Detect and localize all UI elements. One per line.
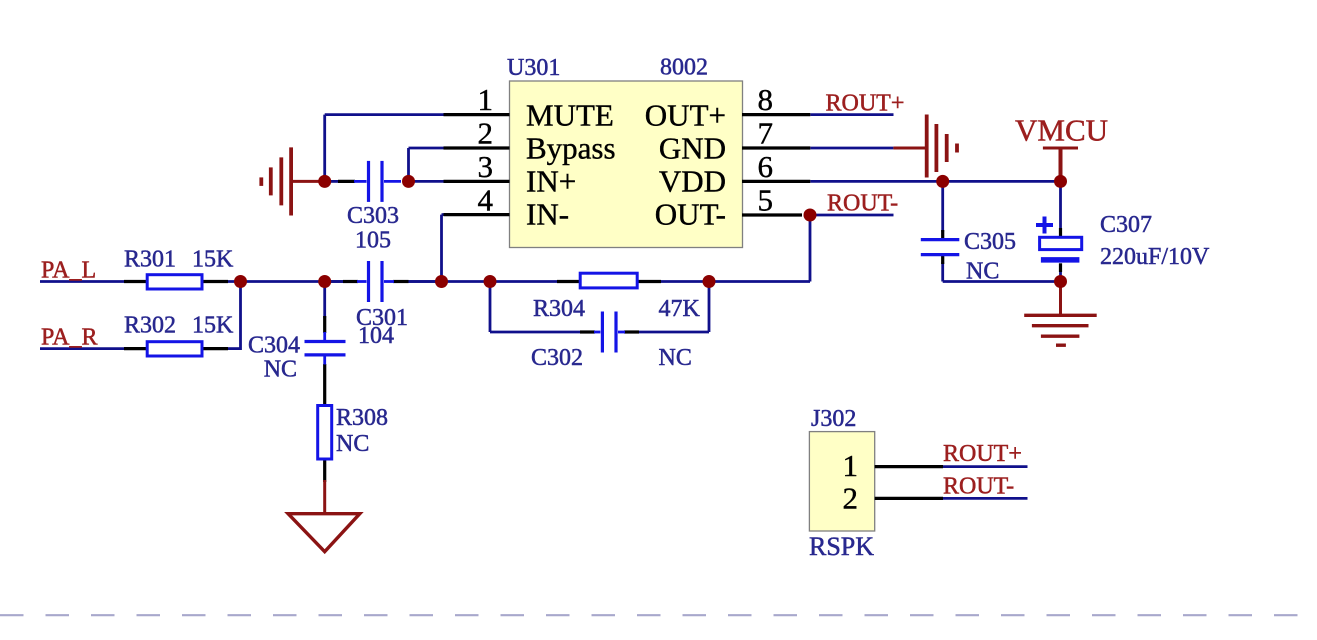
svg-text:OUT+: OUT+ bbox=[645, 98, 726, 133]
svg-text:IN-: IN- bbox=[526, 197, 569, 232]
svg-text:R308: R308 bbox=[336, 405, 388, 431]
svg-text:R301: R301 bbox=[124, 247, 176, 273]
svg-text:47K: 47K bbox=[659, 296, 701, 322]
svg-text:R302: R302 bbox=[124, 313, 176, 339]
svg-text:220uF/10V: 220uF/10V bbox=[1100, 244, 1210, 270]
svg-text:8: 8 bbox=[758, 82, 774, 117]
svg-text:7: 7 bbox=[758, 116, 774, 151]
svg-text:C303: C303 bbox=[347, 203, 399, 229]
svg-text:MUTE: MUTE bbox=[526, 98, 614, 133]
svg-text:4: 4 bbox=[478, 183, 494, 218]
svg-text:J302: J302 bbox=[811, 406, 856, 432]
svg-text:1: 1 bbox=[478, 82, 494, 117]
svg-text:ROUT+: ROUT+ bbox=[943, 441, 1022, 467]
svg-text:2: 2 bbox=[478, 116, 494, 151]
svg-text:RSPK: RSPK bbox=[809, 532, 874, 561]
svg-text:2: 2 bbox=[843, 481, 859, 516]
svg-text:R304: R304 bbox=[533, 296, 585, 322]
svg-text:1: 1 bbox=[843, 448, 859, 483]
svg-text:Bypass: Bypass bbox=[526, 131, 616, 166]
svg-text:105: 105 bbox=[355, 228, 391, 254]
svg-text:OUT-: OUT- bbox=[655, 197, 726, 232]
svg-text:C307: C307 bbox=[1100, 212, 1152, 238]
svg-text:C305: C305 bbox=[964, 229, 1016, 255]
svg-text:8002: 8002 bbox=[660, 55, 708, 81]
svg-text:104: 104 bbox=[358, 323, 394, 349]
svg-text:PA_R: PA_R bbox=[41, 325, 97, 351]
svg-text:ROUT-: ROUT- bbox=[943, 474, 1014, 500]
svg-text:15K: 15K bbox=[192, 313, 234, 339]
svg-text:C302: C302 bbox=[531, 345, 583, 371]
svg-text:VMCU: VMCU bbox=[1015, 113, 1108, 148]
svg-text:3: 3 bbox=[478, 149, 494, 184]
svg-text:VDD: VDD bbox=[659, 164, 726, 199]
svg-text:ROUT+: ROUT+ bbox=[826, 91, 905, 117]
svg-text:C304: C304 bbox=[248, 333, 300, 359]
svg-text:NC: NC bbox=[336, 431, 369, 457]
svg-text:NC: NC bbox=[264, 357, 297, 383]
svg-text:NC: NC bbox=[966, 259, 999, 285]
svg-text:5: 5 bbox=[758, 183, 774, 218]
svg-text:NC: NC bbox=[659, 345, 692, 371]
svg-text:IN+: IN+ bbox=[526, 164, 576, 199]
svg-text:PA_L: PA_L bbox=[41, 258, 96, 284]
svg-text:ROUT-: ROUT- bbox=[827, 191, 898, 217]
svg-text:GND: GND bbox=[659, 131, 726, 166]
svg-text:U301: U301 bbox=[507, 55, 560, 81]
svg-text:6: 6 bbox=[758, 149, 774, 184]
svg-text:15K: 15K bbox=[192, 247, 234, 273]
